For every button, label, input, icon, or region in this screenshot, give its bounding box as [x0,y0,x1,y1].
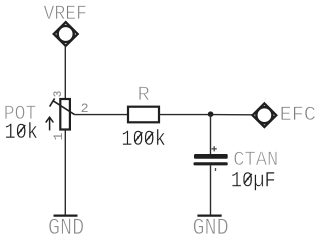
svg-text:2: 2 [81,101,89,116]
capacitor CTAN top plate [194,154,228,159]
svg-text:GND: GND [48,215,84,235]
supply connector VREF (diamond with circle) [54,22,78,46]
svg-text:GND: GND [193,215,229,235]
potentiometer POT body [60,99,70,130]
wire VREF to POT pin 3 [64,46,66,99]
slash of first zero in 100k [135,132,143,142]
capacitor CTAN bottom plate [194,162,228,165]
slash of second zero in 100k [145,132,153,142]
wire POT wiper to resistor R [75,114,129,116]
potentiometer POT adjust arrow [46,117,54,130]
svg-text:10k: 10k [5,120,39,145]
svg-text:100k: 100k [121,127,166,152]
ground symbol GND left [54,214,78,216]
capacitor CTAN plus sign [212,146,217,151]
resistor R body [128,107,159,123]
potentiometer POT slot tick [50,98,55,106]
svg-text:1: 1 [51,133,66,141]
wire junction to capacitor CTAN [210,115,212,154]
wire resistor R to junction [159,114,211,116]
potentiometer POT wiper diagonal [53,101,75,115]
wire POT pin 1 to ground [64,130,66,215]
svg-text:R: R [138,84,150,107]
wire junction to EFC connector [211,114,253,116]
junction dot [208,111,214,117]
connector EFC (diamond with circle) [253,103,277,127]
svg-text:3: 3 [53,91,65,98]
svg-text:10µF: 10µF [231,169,276,194]
slash of zero in 10k [18,125,26,135]
capacitor CTAN minus tick [215,168,217,171]
ground symbol GND right [197,214,221,216]
slash of zero in 10µF [244,174,252,184]
wire capacitor CTAN to ground [210,165,212,214]
svg-text:EFC: EFC [280,104,316,127]
